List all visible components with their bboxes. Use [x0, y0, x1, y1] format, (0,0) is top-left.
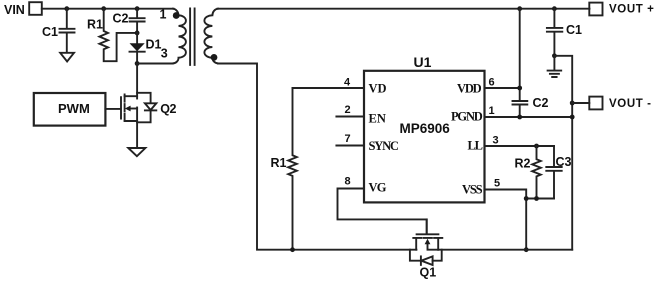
transistor Q1	[413, 219, 442, 279]
VOUT- terminal	[589, 97, 651, 110]
transformer T1 secondary winding	[204, 9, 218, 64]
capacitor C3	[546, 146, 571, 199]
diode D1	[130, 33, 162, 64]
svg-text:R1: R1	[271, 156, 287, 170]
node dot VSS rail	[524, 247, 529, 252]
svg-text:MP6906: MP6906	[400, 121, 451, 136]
node B dot (switch node)	[135, 61, 140, 66]
wire R2C3 bottom link	[526, 198, 554, 200]
transformer core	[190, 9, 195, 65]
svg-text:VD: VD	[369, 81, 387, 95]
pin VDD	[457, 77, 520, 96]
pin SYNC	[336, 133, 399, 153]
Q1 body diode	[410, 250, 442, 265]
node dot PGND end	[570, 115, 575, 120]
svg-text:Q1: Q1	[420, 266, 437, 280]
capacitor C2 (VDD)	[513, 96, 549, 117]
wire VOUT-	[572, 102, 589, 104]
pin EN	[336, 104, 385, 126]
wire to transformer pin 3	[137, 63, 172, 65]
svg-text:VG: VG	[369, 180, 387, 194]
wire top rail right	[218, 8, 590, 10]
svg-text:VOUT -: VOUT -	[609, 98, 652, 110]
resistor R1 (VD)	[271, 88, 297, 250]
VOUT+ terminal	[589, 3, 654, 16]
node VIN label	[4, 3, 25, 17]
svg-text:Q2: Q2	[160, 102, 176, 116]
node dot C1 top	[64, 6, 69, 11]
transistor Q2	[121, 95, 177, 122]
node dot VDD	[517, 86, 522, 91]
svg-text:1: 1	[489, 105, 495, 117]
svg-text:VIN: VIN	[4, 3, 25, 17]
wire VG routing	[338, 189, 427, 234]
resistor R1 snubber	[87, 9, 137, 62]
VIN terminal	[29, 2, 42, 15]
svg-text:PGND: PGND	[451, 109, 483, 123]
svg-text:7: 7	[345, 133, 351, 145]
pin VG	[345, 176, 387, 195]
capacitor C1 output	[547, 9, 582, 56]
svg-text:EN: EN	[369, 112, 386, 126]
svg-text:6: 6	[489, 77, 495, 89]
wire Q2 source/body	[136, 108, 138, 148]
pin label 3	[161, 46, 168, 60]
svg-text:U1: U1	[414, 54, 432, 70]
node dot C1 bottom	[552, 53, 557, 58]
svg-text:R1: R1	[87, 18, 103, 32]
pin PGND	[451, 105, 572, 123]
primary phase dot	[173, 12, 180, 19]
wire PWM to Q2 gate	[105, 108, 120, 110]
PWM block	[34, 93, 106, 126]
transformer T1 primary winding	[172, 9, 186, 64]
svg-text:SYNC: SYNC	[369, 139, 399, 153]
pin label 1	[160, 7, 167, 21]
pin VSS	[462, 178, 526, 250]
svg-text:8: 8	[345, 176, 351, 188]
wire Q2 drain	[136, 64, 138, 99]
svg-text:C2: C2	[113, 12, 129, 26]
Q2 body diode	[137, 93, 156, 123]
svg-text:3: 3	[493, 135, 499, 147]
svg-text:2: 2	[345, 104, 351, 116]
op-amp U1 MP6906 body	[364, 54, 485, 203]
pin VD	[344, 77, 387, 96]
svg-text:VOUT +: VOUT +	[609, 4, 654, 16]
node dot C2 top	[135, 6, 140, 11]
node dot R1 top	[101, 6, 106, 11]
pin LL	[468, 135, 555, 153]
svg-text:R2: R2	[515, 157, 531, 171]
node dot R2 bottom	[534, 196, 539, 201]
svg-text:1: 1	[160, 7, 167, 21]
wire bottom rail right	[438, 249, 572, 251]
ground output (earth)	[548, 56, 562, 77]
svg-text:C1: C1	[42, 25, 58, 39]
node dot rail x520	[517, 6, 522, 11]
wire VD	[293, 87, 365, 89]
wire secondary return	[218, 64, 416, 250]
svg-text:C1: C1	[566, 23, 582, 37]
wire VDD vertical	[519, 9, 521, 100]
secondary phase dot	[211, 54, 218, 61]
svg-text:C3: C3	[556, 155, 572, 169]
svg-text:PWM: PWM	[58, 101, 90, 116]
svg-text:5: 5	[494, 178, 500, 190]
wire top rail left	[42, 8, 174, 10]
svg-text:VDD: VDD	[457, 81, 482, 95]
ground Q2	[128, 148, 145, 156]
svg-text:3: 3	[161, 46, 168, 60]
node dot R1 bottom	[290, 247, 295, 252]
capacitor C2 snubber	[113, 9, 145, 32]
svg-text:LL: LL	[468, 138, 483, 152]
node A dot (snubber clamp)	[135, 31, 140, 36]
svg-text:D1: D1	[146, 38, 162, 52]
node dot VOUT-	[570, 101, 575, 106]
resistor R2	[515, 146, 541, 199]
node dot PGND-C2	[517, 115, 522, 120]
capacitor C1 input	[42, 9, 75, 53]
ground input	[60, 53, 74, 62]
svg-text:4: 4	[344, 77, 351, 89]
svg-text:VSS: VSS	[462, 182, 483, 196]
wire C1 node to VOUT- rail	[554, 56, 572, 250]
node dot LL-R2	[534, 144, 539, 149]
svg-text:C2: C2	[533, 96, 549, 110]
node dot rail x554	[552, 6, 557, 11]
node dot VSS link	[524, 196, 529, 201]
